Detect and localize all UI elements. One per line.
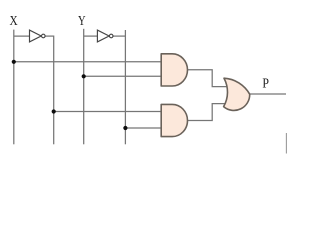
wire: X' rail xyxy=(53,36,55,145)
AND gate G2 (X'·Y') xyxy=(161,104,187,136)
wire: Y' tap to AND2 bottom input xyxy=(125,127,163,129)
inverter U1 (NOT X) triangle xyxy=(30,30,42,42)
wire: Y tap to AND1 bottom input xyxy=(84,75,163,77)
wire: X' tap to AND2 top input xyxy=(54,111,163,113)
wire: AND1 output to OR top input xyxy=(187,70,228,87)
svg-text:Y: Y xyxy=(78,14,86,29)
wire: X inverter output to X' rail xyxy=(45,35,54,37)
inverter U2 bubble xyxy=(109,34,113,38)
wire: X input rail xyxy=(13,30,15,145)
wire: Y input rail xyxy=(83,29,85,145)
wire: AND2 output to OR bottom input xyxy=(187,104,228,121)
junction dot on X rail xyxy=(12,60,16,64)
wire: X tap to AND1 top input xyxy=(14,61,163,63)
inverter U1 bubble xyxy=(42,34,46,38)
inverter U2 (NOT Y) triangle xyxy=(97,30,109,42)
stray vertical mark bottom right xyxy=(285,133,287,154)
wire: Y inverter output to Y' rail xyxy=(113,35,125,37)
junction dot on Y rail xyxy=(82,74,86,78)
AND gate G1 (X·Y) xyxy=(161,54,187,86)
svg-text:P: P xyxy=(262,77,269,92)
junction dot on X' rail xyxy=(52,109,56,113)
wire: Y' rail xyxy=(124,30,126,144)
junction dot on Y' rail xyxy=(123,126,127,130)
wire: X inverter input xyxy=(14,35,30,37)
svg-text:X: X xyxy=(10,14,18,29)
wire: OR output P xyxy=(250,93,287,95)
OR gate G3 xyxy=(224,78,250,110)
wire: Y inverter input xyxy=(84,35,98,37)
